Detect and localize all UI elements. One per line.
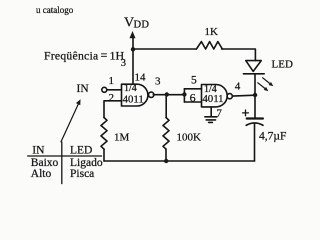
svg-text:4011: 4011 <box>123 93 144 105</box>
svg-text:2: 2 <box>109 92 115 104</box>
svg-text:3: 3 <box>155 76 161 88</box>
svg-text:DD: DD <box>134 20 150 31</box>
svg-text:3: 3 <box>121 58 126 69</box>
svg-text:Alto: Alto <box>31 168 52 180</box>
svg-text:4,7µF: 4,7µF <box>259 131 286 143</box>
svg-text:LED: LED <box>272 59 293 71</box>
svg-text:4011: 4011 <box>202 93 223 105</box>
svg-text:1K: 1K <box>205 26 219 38</box>
svg-text:6: 6 <box>190 91 196 105</box>
svg-text:Pisca: Pisca <box>70 168 94 180</box>
svg-text:1: 1 <box>109 75 115 87</box>
svg-text:Freqüência: Freqüência <box>44 50 99 63</box>
svg-text:u catalogo: u catalogo <box>36 5 74 15</box>
svg-text:100K: 100K <box>177 132 202 144</box>
svg-text:5: 5 <box>191 74 197 86</box>
svg-text:14: 14 <box>135 72 147 84</box>
svg-text:7: 7 <box>216 107 222 119</box>
svg-text:IN: IN <box>32 145 45 157</box>
svg-text:1M: 1M <box>114 132 130 144</box>
svg-text:4: 4 <box>235 80 241 92</box>
svg-text:=: = <box>101 48 108 62</box>
svg-text:LED: LED <box>70 145 92 157</box>
svg-text:1/4: 1/4 <box>124 83 137 94</box>
svg-text:IN: IN <box>77 83 90 95</box>
